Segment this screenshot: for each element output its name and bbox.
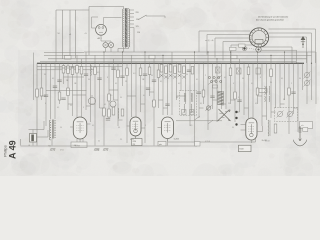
svg-text:110: 110 (137, 32, 140, 34)
box on bus right (259, 89, 267, 93)
capacitor C18 (256, 68, 261, 74)
wire drop x68 (67, 63, 69, 110)
wire drop x244 (243, 63, 245, 115)
wire drop x127 (126, 63, 128, 143)
wire drop x289 (288, 63, 290, 134)
svg-text:0,1: 0,1 (115, 83, 117, 85)
dial drive motor (242, 46, 246, 50)
wire drop x50.5 (50, 63, 52, 119)
resistor R31 (108, 94, 111, 101)
capacitor C4 (57, 79, 61, 81)
resistor group R10-R13 (103, 108, 106, 116)
resistor cluster R19-R24 (160, 65, 163, 73)
wires into V4 (241, 124, 246, 126)
wire drop x145 (144, 52, 146, 143)
box under V2 (132, 139, 143, 146)
pilot lamps (103, 42, 108, 47)
wire drop x122.5 (122, 52, 124, 86)
wire drop x221.5 (221, 63, 223, 109)
IF transformer S1 (180, 91, 197, 116)
capacitor C22 (197, 91, 201, 93)
svg-text:0,5: 0,5 (97, 72, 99, 74)
svg-text:50: 50 (151, 75, 153, 77)
resistor R28 (234, 92, 237, 99)
wire bus 1 left (44, 52, 84, 54)
svg-text:25: 25 (228, 103, 230, 105)
svg-text:8: 8 (152, 101, 153, 103)
wire drop x253 (252, 63, 254, 118)
wire top feeder horizontal (56, 9, 89, 11)
svg-text:A 49: A 49 (8, 140, 18, 159)
svg-text:2: 2 (291, 83, 292, 85)
svg-text:50: 50 (120, 97, 122, 99)
wire link segments (46, 90, 87, 92)
label under V1 (71, 142, 87, 148)
wire vertical x63 (62, 10, 64, 59)
wire bus heavy (37, 62, 304, 64)
switch box on bus (65, 56, 72, 60)
output coil S4 (267, 120, 270, 123)
capacitor C17 (237, 68, 242, 74)
svg-text:150: 150 (136, 19, 139, 21)
wire drop x172 (171, 52, 173, 115)
capacitor C19 (291, 91, 295, 93)
ground symbol 2 (95, 148, 100, 150)
label psb box (158, 141, 166, 146)
capacitor C7 (53, 85, 57, 87)
capacitor C9 (106, 118, 110, 120)
svg-text:0,1: 0,1 (200, 103, 202, 105)
wire drop x55 (54, 63, 56, 119)
wire drop x203.5 (203, 63, 205, 104)
wire drop x46 (45, 63, 47, 126)
svg-text:25: 25 (125, 81, 127, 83)
resistor group R1-R5 (62, 66, 65, 74)
IF transformer S2 (218, 91, 224, 92)
wire drop x302.5 (302, 63, 304, 90)
svg-text:0,2: 0,2 (178, 83, 180, 85)
svg-text:25: 25 (70, 105, 72, 107)
wire drop x199 (198, 63, 200, 118)
wire drop x167.5 (167, 63, 169, 115)
wire dial right 2 (269, 32, 312, 34)
wire drop x194.5 (194, 52, 196, 146)
label box right edge (300, 122, 313, 129)
wire drop x41.5 (41, 63, 43, 100)
wire left drop x33 (33, 53, 35, 100)
resistor R16 (139, 68, 142, 76)
svg-text:0,5: 0,5 (110, 95, 112, 97)
paper mottle texture (129, 85, 159, 113)
dial cord dash (247, 48, 256, 50)
V2 inner circle (134, 129, 138, 133)
band tone wash (18, 50, 316, 148)
wire dial bracket 5 (231, 44, 253, 46)
wire drop x316 (315, 52, 317, 104)
tube V2 EF22 (130, 117, 141, 136)
svg-text:0,1: 0,1 (104, 104, 106, 106)
trimmer C21 (304, 80, 309, 85)
svg-text:0,1: 0,1 (92, 125, 94, 127)
wire drop x212.5 (212, 63, 214, 109)
wire dial right 3 (268, 36, 307, 38)
wire vertical x70 (69, 10, 71, 56)
wire drop x280 (279, 63, 281, 108)
wire drop x293.5 (293, 63, 295, 114)
tube V4 EM4 (246, 118, 257, 140)
resistor R29 (256, 88, 259, 95)
wire bus 2 (44, 54, 312, 56)
junction dots tube D (235, 111, 237, 113)
wire bus left 5 (37, 65, 122, 67)
wire drop x266.5 (266, 63, 268, 120)
tuning drum dial (249, 28, 268, 47)
capacitor C26 (165, 103, 169, 105)
wire left drop x37 (36, 63, 38, 145)
svg-text:50: 50 (186, 74, 188, 76)
label box dial 2 (230, 47, 237, 50)
resistor R23 (229, 68, 232, 76)
wire V2 side stubs (127, 125, 131, 127)
svg-text:Die Schaltung ist von der Unte: Die Schaltung ist von der Unterseite (258, 16, 288, 19)
wire drop x248.5 (248, 63, 250, 118)
capacitor C10 (111, 67, 115, 69)
svg-text:LS: LS (28, 145, 30, 147)
box on bus mid2 (231, 55, 237, 58)
oscillator coil S3 (264, 86, 267, 89)
wire speaker link (37, 136, 49, 138)
wire dial right 1 (269, 28, 316, 30)
svg-text:50: 50 (242, 78, 244, 80)
svg-text:des Chassis gesehen gezeichnet: des Chassis gesehen gezeichnet (256, 19, 284, 22)
wire drop x226 (225, 63, 227, 109)
svg-text:ant (L) + A: ant (L) + A (205, 39, 214, 42)
svg-text:706: 706 (48, 146, 51, 148)
svg-text:50: 50 (270, 82, 272, 84)
svg-text:0,1: 0,1 (251, 83, 253, 85)
volume pot (88, 97, 95, 104)
svg-text:4711: 4711 (60, 150, 64, 152)
resistor R27 (202, 90, 205, 97)
svg-text:8: 8 (260, 77, 261, 79)
resistor R25 (270, 69, 273, 77)
wire V2 pin down (135, 136, 137, 146)
svg-text:50: 50 (118, 127, 120, 129)
resistor R30 (153, 100, 156, 107)
capacitor C24 (237, 99, 241, 101)
tube V3 EBL21 (162, 117, 174, 139)
wire bus 4 (40, 60, 296, 62)
pot circle mid (110, 101, 116, 107)
wire drop x257.5 (257, 52, 259, 104)
dial pulley (256, 47, 261, 52)
svg-text:4: 4 (233, 83, 234, 85)
trimmer C27 (206, 106, 210, 110)
svg-text:0,1: 0,1 (143, 95, 145, 97)
svg-text:0,1: 0,1 (224, 77, 226, 79)
svg-text:0,1: 0,1 (196, 79, 198, 81)
svg-text:0,3: 0,3 (133, 73, 135, 75)
wire dial lower right 2 (261, 49, 297, 51)
wire dial bracket 4 (223, 41, 252, 43)
svg-text:2: 2 (205, 75, 206, 77)
wire drop x63.5 (63, 63, 65, 84)
capacitor C5 (44, 94, 48, 96)
svg-text:50: 50 (88, 79, 90, 81)
wire tube C to D (176, 120, 222, 122)
switch arrows S5 (218, 110, 230, 122)
capacitor C11 (120, 75, 124, 77)
wire chassis upper seg (168, 141, 256, 143)
wire drop x86 (85, 52, 87, 110)
wire V1 pins (76, 139, 78, 142)
label box dial 1 (239, 44, 246, 47)
wire drop x217 (216, 59, 218, 122)
wire dial bracket 2 (207, 34, 250, 36)
wire bus left 6 (37, 69, 96, 71)
resistor R18 (157, 70, 160, 78)
wire drop x81.5 (81, 59, 83, 117)
wire drop x77 (76, 55, 78, 117)
rectifier tube AZ1 (96, 24, 107, 35)
svg-text:50: 50 (232, 127, 234, 129)
capacitor C25 (146, 87, 150, 89)
wire drop x59.5 (59, 63, 61, 104)
wire drop x118 (117, 63, 119, 126)
svg-text:0,1: 0,1 (281, 78, 283, 80)
svg-text:10: 10 (60, 127, 62, 129)
wire drop x149.5 (149, 63, 151, 96)
svg-text:50: 50 (176, 97, 178, 99)
wire drop x113.5 (113, 59, 115, 100)
svg-text:50: 50 (283, 99, 285, 101)
capacitor C23 (210, 95, 214, 97)
resistor R26 (288, 88, 291, 95)
ground symbol 1 (51, 148, 56, 150)
svg-text:0,1: 0,1 (160, 81, 162, 83)
wire V1 side stubs (70, 126, 73, 128)
dashed gang box (275, 108, 298, 122)
wire drop x230.5 (230, 52, 232, 104)
wire drop x275.5 (275, 63, 277, 108)
mains transformer T1 (124, 8, 126, 47)
wire bottom left drop (20, 139, 22, 146)
svg-text:0,05: 0,05 (96, 150, 99, 152)
field coil L1 (51, 120, 53, 139)
svg-text:0,1: 0,1 (255, 103, 257, 105)
svg-text:50: 50 (98, 141, 100, 143)
resistor R22 (191, 67, 194, 75)
tube V1 ECH21 (73, 117, 87, 139)
wire dial bracket 3 (215, 37, 251, 39)
wire bus 1 (84, 51, 316, 53)
resistor R7 (58, 92, 61, 100)
wire V3 side stub (158, 127, 162, 129)
svg-text:5: 5 (145, 125, 146, 127)
wire drop x239.5 (239, 59, 241, 112)
wire top feeder upper (89, 6, 124, 8)
wire drop x176.5 (176, 63, 178, 100)
wire drop x109 (108, 63, 110, 118)
capacitor C12 (143, 73, 147, 75)
wire drop x72.5 (72, 63, 74, 116)
svg-text:4 25 B: 4 25 B (205, 141, 211, 143)
wire drop x95 (94, 55, 96, 145)
svg-text:220: 220 (136, 12, 139, 14)
wire rectifier cathode drop (100, 35, 102, 41)
wire drop x140.5 (140, 63, 142, 112)
svg-text:5: 5 (83, 107, 84, 109)
capacitor C15 (187, 69, 191, 71)
switch contacts (195, 116, 201, 120)
svg-text:125: 125 (136, 26, 139, 28)
wire drop x271 (270, 55, 272, 118)
svg-text:218: 218 (133, 144, 136, 146)
transformer voltage selector taps (130, 9, 134, 11)
wire drop x190 (189, 63, 191, 126)
wire dial bracket 1 (199, 30, 250, 32)
wire drop x104 (103, 52, 105, 146)
wave-band switch contacts (208, 76, 210, 78)
wire drop x208 (207, 52, 209, 130)
wire drop x99.5 (99, 63, 101, 108)
wire vertical x75 (75, 10, 77, 58)
capacitor C6 (61, 97, 65, 99)
IF box bottom caps (182, 110, 187, 115)
svg-text:50: 50 (44, 74, 46, 76)
svg-text:50: 50 (299, 78, 301, 80)
svg-text:0,1: 0,1 (57, 107, 59, 109)
wire drop x235 (234, 63, 236, 122)
wire drop x298 (297, 63, 299, 132)
resistor R15 (126, 68, 129, 76)
box under V4 (239, 145, 252, 152)
wire V3 pin down (167, 139, 169, 146)
resistor R6 (40, 88, 43, 96)
wire drop x307 (306, 52, 308, 104)
svg-text:a-b: a-b (301, 125, 304, 127)
wire vertical x56 (55, 10, 57, 62)
wire dial lower right 1 (261, 46, 292, 48)
capacitor C13 (152, 79, 156, 81)
svg-text:ECH21: ECH21 (75, 146, 80, 148)
junction dots (45, 63, 46, 64)
resistor R8 (67, 88, 70, 96)
wire drop x185.5 (185, 59, 187, 104)
svg-text:25: 25 (120, 139, 122, 141)
V4 inner circle (250, 133, 254, 137)
box on bus mid (149, 55, 155, 58)
loudspeaker LS (30, 134, 37, 143)
wire drop x262 (261, 63, 263, 126)
svg-text:6: 6 (45, 103, 46, 105)
svg-text:50: 50 (214, 81, 216, 83)
resistor R24 (247, 67, 250, 75)
antenna symbol (302, 37, 304, 49)
wire bus 3 (48, 58, 307, 60)
svg-text:psb: psb (159, 144, 162, 146)
svg-text:6.21B: 6.21B (174, 138, 180, 140)
wire vertical x89 (88, 7, 90, 56)
wire drop x158.5 (158, 63, 160, 108)
wire drop x163 (162, 55, 164, 115)
wire drop x131.5 (131, 55, 133, 117)
svg-text:8: 8 (107, 77, 108, 79)
wire drop x311.5 (311, 63, 313, 100)
svg-text:5: 5 (168, 78, 169, 80)
svg-text:5: 5 (238, 97, 239, 99)
wire lamp drops (105, 48, 107, 52)
trimmer C20 (304, 72, 309, 77)
wire drop x181 (180, 63, 182, 91)
svg-text:0,5: 0,5 (190, 125, 192, 127)
capacitor C16 (216, 67, 221, 73)
svg-text:EF22: EF22 (130, 139, 134, 141)
svg-text:E443: E443 (240, 149, 244, 151)
wire drop x136 (135, 63, 137, 117)
resistor R17 (148, 67, 151, 75)
svg-text:0,1: 0,1 (52, 78, 54, 80)
wire drop x90.5 (90, 63, 92, 122)
resistor R14 (117, 70, 120, 78)
wire transformer bottom (123, 47, 125, 52)
earth symbol (299, 126, 301, 141)
ground symbol 3 (104, 148, 109, 150)
wire chassis bottom (21, 145, 198, 147)
wire drop x284.5 (284, 52, 286, 100)
wire drop x154 (153, 59, 155, 146)
